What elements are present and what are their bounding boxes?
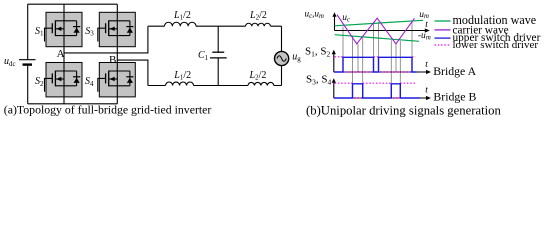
- filter bottom rail: [148, 85, 282, 87]
- top plot x axis: [335, 30, 428, 32]
- capacitor C1 top plate: [212, 51, 224, 53]
- svg-text:Bridge B: Bridge B: [433, 89, 476, 103]
- svg-text:S4: S4: [85, 76, 94, 88]
- battery udc long plate: [19, 59, 36, 61]
- carrier wave triangle: [337, 15, 415, 44]
- switch S4: [98, 63, 136, 97]
- svg-text:uc,um: uc,um: [305, 9, 325, 20]
- svg-text:uc: uc: [342, 13, 350, 23]
- svg-text:t: t: [425, 20, 428, 30]
- svg-text:udc: udc: [4, 56, 16, 68]
- inductor L1/2 bottom: [166, 82, 194, 85]
- ac source sine symbol: [277, 56, 286, 62]
- bridge A x axis: [334, 71, 429, 73]
- svg-text:L2/2: L2/2: [249, 70, 267, 82]
- legend carrier wave: [435, 29, 451, 31]
- legend upper switch driver: [435, 37, 451, 39]
- node B leg wire S3-S4: [116, 47, 118, 63]
- svg-text:S1: S1: [35, 26, 44, 38]
- svg-text:(a)Topology of full-bridge gri: (a)Topology of full-bridge grid-tied inv…: [4, 102, 212, 116]
- ac source ug circle: [275, 51, 289, 65]
- inductor L2/2 bottom: [248, 82, 274, 85]
- modulation wave -um (lower green): [335, 35, 419, 42]
- svg-text:(b)Unipolar driving signals ge: (b)Unipolar driving signals generation: [306, 104, 502, 118]
- switch S3: [98, 12, 136, 46]
- svg-text:ug: ug: [292, 51, 301, 63]
- crossing guide lines: [343, 21, 412, 83]
- legend lower switch driver: [435, 44, 451, 46]
- svg-text:L1/2: L1/2: [173, 10, 191, 22]
- bridge B upper driver (blue): [334, 84, 420, 98]
- svg-text:B: B: [109, 54, 116, 66]
- bridge B lower driver (magenta dotted): [335, 83, 417, 98]
- top dc rail: [28, 3, 118, 5]
- svg-text:S3: S3: [85, 26, 94, 38]
- inductor L2/2 top: [246, 23, 271, 26]
- svg-text:S2: S2: [35, 76, 44, 88]
- dc source top lead: [27, 4, 29, 59]
- battery udc short plate: [23, 63, 33, 65]
- bridge B x axis: [334, 97, 429, 99]
- top plot y axis: [334, 16, 336, 31]
- S2 source wire to bottom rail: [63, 97, 65, 104]
- svg-text:lower switch driver: lower switch driver: [453, 39, 539, 51]
- modulation wave um (upper green): [335, 20, 423, 26]
- capacitor C1 leads: [217, 26, 219, 85]
- filter top rail: [148, 25, 282, 27]
- bridge A upper driver (blue): [334, 57, 417, 72]
- S1 drain drop wire: [63, 4, 65, 12]
- legend modulation wave: [435, 20, 451, 22]
- inductor L1/2 top: [165, 22, 197, 26]
- switch S1: [45, 12, 83, 46]
- bottom dc rail: [28, 103, 118, 105]
- bridge B y axis: [333, 82, 335, 98]
- svg-text:L1/2: L1/2: [173, 70, 191, 82]
- svg-text:L2/2: L2/2: [249, 10, 267, 22]
- svg-text:t: t: [425, 85, 428, 95]
- wire node B to filter: [117, 60, 148, 85]
- node A leg wire S1-S2: [63, 47, 65, 63]
- svg-text:A: A: [57, 48, 65, 60]
- svg-text:t: t: [425, 60, 428, 70]
- S4 source wire to bottom rail: [116, 97, 118, 104]
- wire node A to filter: [64, 26, 148, 53]
- ac source ug leads: [281, 26, 283, 85]
- bridge A lower driver (magenta dotted): [335, 57, 416, 72]
- switch S2: [45, 63, 83, 97]
- svg-text:Bridge A: Bridge A: [433, 64, 476, 78]
- capacitor C1 bottom plate: [210, 57, 227, 59]
- bridge A y axis: [333, 53, 335, 72]
- svg-text:C1: C1: [198, 50, 209, 62]
- svg-text:S1, S2: S1, S2: [305, 46, 331, 59]
- svg-text:-um: -um: [418, 31, 431, 41]
- dc source bottom lead: [27, 65, 29, 104]
- svg-text:S3, S4: S3, S4: [306, 74, 332, 87]
- S3 drain drop wire: [116, 4, 118, 12]
- svg-text:um: um: [419, 10, 429, 20]
